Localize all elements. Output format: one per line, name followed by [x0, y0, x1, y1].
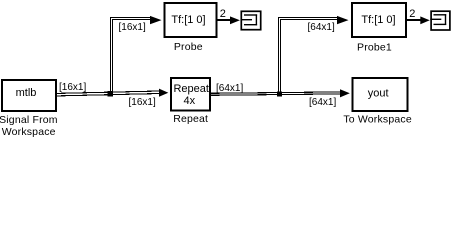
- port width label 2: [220, 8, 226, 20]
- arrowhead into Terminator: [230, 16, 240, 24]
- wire branch up to Probe (wide double line): [110, 17, 152, 93]
- arrowhead into Probe1: [337, 16, 349, 24]
- label Probe: [174, 41, 203, 53]
- arrowhead into yout: [340, 89, 350, 97]
- wire Repeat output to yout (wide double line): [211, 92, 342, 95]
- svg-text:Probe1: Probe1: [357, 41, 392, 53]
- arrowhead into Repeat: [159, 89, 168, 97]
- svg-text:[64x1]: [64x1]: [308, 22, 335, 33]
- block Terminator: [241, 11, 261, 29]
- wire Probe1 output to Terminator1: [407, 19, 422, 21]
- svg-text:Tf:[1 0]: Tf:[1 0]: [361, 14, 395, 26]
- signal label [16x1] at mtlb output: [59, 82, 86, 93]
- label Signal From Workspace: [0, 114, 58, 138]
- junction dot on Repeat wire: [277, 92, 282, 97]
- svg-text:Tf:[1 0]: Tf:[1 0]: [171, 14, 205, 26]
- svg-text:yout: yout: [368, 88, 389, 100]
- svg-text:4x: 4x: [183, 95, 195, 107]
- signal label [16x1] at Probe input: [119, 22, 146, 33]
- signal label [64x1] after junction: [309, 97, 336, 108]
- wire Probe output to Terminator: [218, 19, 232, 21]
- label Repeat: [173, 113, 208, 125]
- arrowhead into Terminator1: [420, 16, 430, 24]
- signal label [16x1] after junction: [129, 97, 156, 108]
- svg-text:Signal From: Signal From: [0, 114, 58, 126]
- svg-text:[16x1]: [16x1]: [59, 82, 86, 93]
- svg-text:To Workspace: To Workspace: [343, 113, 412, 125]
- svg-text:Repeat: Repeat: [173, 83, 208, 95]
- block Probe: [165, 3, 217, 37]
- block Terminator1: [430, 11, 450, 30]
- block Probe1: [352, 3, 406, 37]
- svg-text:[16x1]: [16x1]: [119, 22, 146, 33]
- block yout (To Workspace): [353, 78, 408, 111]
- wire mtlb output to Repeat (wide double line): [57, 91, 160, 96]
- junction dot on mtlb wire: [108, 91, 113, 96]
- block mtlb (Signal From Workspace): [2, 80, 56, 111]
- svg-text:Probe: Probe: [174, 41, 203, 53]
- svg-text:2: 2: [409, 8, 415, 20]
- signal label [64x1] at Repeat output: [216, 83, 243, 94]
- svg-text:Repeat: Repeat: [173, 113, 208, 125]
- wire branch up to Probe1 (wide double line): [278, 17, 338, 93]
- signal label [64x1] at Probe1 input: [308, 22, 335, 33]
- svg-text:[64x1]: [64x1]: [309, 97, 336, 108]
- svg-text:[64x1]: [64x1]: [216, 83, 243, 94]
- svg-text:Workspace: Workspace: [2, 126, 56, 138]
- arrowhead into Probe: [150, 16, 162, 24]
- label To Workspace: [343, 113, 412, 125]
- svg-text:2: 2: [220, 8, 226, 20]
- svg-text:mtlb: mtlb: [16, 87, 37, 99]
- block Repeat: [171, 78, 210, 111]
- svg-text:[16x1]: [16x1]: [129, 97, 156, 108]
- port width label 2: [409, 8, 415, 20]
- label Probe1: [357, 41, 392, 53]
